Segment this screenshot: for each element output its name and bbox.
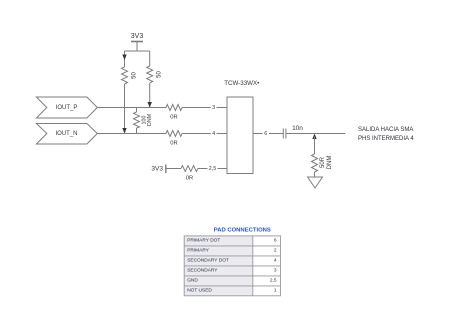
svg-text:0R: 0R bbox=[170, 115, 177, 121]
value 100 DNM bbox=[142, 113, 153, 126]
ground bbox=[308, 177, 323, 188]
port IOUT_P bbox=[36, 97, 97, 118]
resistor 100 DNM (termination) bbox=[134, 108, 140, 134]
wire IOUT_P net bbox=[97, 107, 166, 109]
svg-text:NOT USED: NOT USED bbox=[187, 288, 212, 294]
arrow junction at output bbox=[312, 134, 316, 140]
svg-text:GND: GND bbox=[187, 278, 198, 284]
svg-text:2,5: 2,5 bbox=[209, 166, 217, 172]
wire 50R branch bbox=[314, 137, 316, 155]
svg-text:3V3: 3V3 bbox=[131, 33, 144, 40]
wire to pin 3 bbox=[182, 107, 211, 109]
svg-text:2: 2 bbox=[274, 248, 277, 254]
svg-text:PRIMARY DOT: PRIMARY DOT bbox=[187, 238, 220, 244]
svg-text:IOUT_P: IOUT_P bbox=[56, 105, 78, 111]
svg-text:PAD CONNECTIONS: PAD CONNECTIONS bbox=[214, 228, 271, 234]
wire output net bbox=[287, 133, 346, 135]
svg-text:3V3: 3V3 bbox=[151, 165, 163, 172]
wire IOUT_N net bbox=[97, 133, 166, 135]
port IOUT_N bbox=[36, 124, 97, 145]
wire pin 4 stub bbox=[217, 133, 228, 135]
wire pin 6 to capacitor bbox=[269, 133, 283, 135]
svg-text:SECONDARY DOT: SECONDARY DOT bbox=[187, 258, 229, 264]
resistor 0R (bias) bbox=[181, 166, 198, 172]
svg-text:DNM: DNM bbox=[147, 113, 153, 126]
svg-text:IOUT_N: IOUT_N bbox=[55, 131, 77, 137]
wire right branch lower bbox=[149, 83, 151, 108]
svg-text:0R: 0R bbox=[186, 176, 193, 182]
svg-text:50R: 50R bbox=[320, 156, 326, 168]
resistor 50R DNM bbox=[312, 154, 318, 172]
svg-text:SECONDARY: SECONDARY bbox=[187, 268, 218, 274]
wire pin 2,5 stub bbox=[218, 168, 228, 170]
wire left branch upper bbox=[124, 51, 126, 67]
svg-text:2,5: 2,5 bbox=[270, 278, 277, 284]
svg-text:0R: 0R bbox=[170, 141, 177, 147]
svg-text:PRIMARY: PRIMARY bbox=[187, 248, 210, 254]
value 50R DNM bbox=[320, 156, 333, 170]
svg-text:TCW-33WX•: TCW-33WX• bbox=[224, 80, 259, 87]
resistor R 50 (right) bbox=[147, 66, 153, 83]
wire to ground bbox=[314, 172, 316, 177]
wire right branch upper bbox=[149, 51, 151, 66]
svg-text:50: 50 bbox=[132, 72, 138, 79]
supply 3V3 (top) bbox=[131, 42, 143, 52]
supply 3V3 (lower) bbox=[166, 165, 181, 174]
wire to pin 4 bbox=[182, 133, 211, 135]
wire to pin 2,5 bbox=[198, 168, 208, 170]
svg-text:DNM: DNM bbox=[327, 156, 333, 170]
svg-text:10n: 10n bbox=[292, 125, 303, 132]
svg-text:1: 1 bbox=[274, 288, 277, 294]
svg-text:6: 6 bbox=[274, 238, 277, 244]
resistor 0R (IOUT_N) bbox=[166, 131, 182, 137]
transformer U1 TCW-33WX body bbox=[227, 97, 253, 174]
svg-text:6: 6 bbox=[264, 131, 267, 137]
resistor 0R (IOUT_P) bbox=[166, 105, 182, 111]
pad connections table bbox=[184, 236, 280, 296]
net label SALIDA HACIA SMA / PHS INTERMEDIA 4 bbox=[358, 127, 414, 142]
svg-text:PHS INTERMEDIA 4: PHS INTERMEDIA 4 bbox=[358, 136, 414, 142]
arrow junction at IOUT_P bbox=[148, 102, 152, 108]
svg-text:SALIDA HACIA SMA: SALIDA HACIA SMA bbox=[358, 127, 413, 133]
capacitor C 10n bbox=[283, 129, 286, 139]
svg-text:50: 50 bbox=[157, 71, 163, 78]
arrow down on left branch bbox=[122, 55, 126, 61]
resistor R 50 (left) bbox=[122, 67, 128, 84]
wire left branch lower bbox=[124, 84, 126, 134]
svg-text:3: 3 bbox=[212, 105, 215, 111]
svg-text:4: 4 bbox=[212, 131, 215, 137]
wire pin 3 stub bbox=[217, 107, 228, 109]
svg-text:4: 4 bbox=[274, 258, 277, 264]
svg-text:3: 3 bbox=[274, 268, 277, 274]
wire top rail bbox=[125, 50, 150, 52]
wire pin 6 stub bbox=[253, 133, 263, 135]
arrow junction at IOUT_N bbox=[122, 128, 126, 134]
